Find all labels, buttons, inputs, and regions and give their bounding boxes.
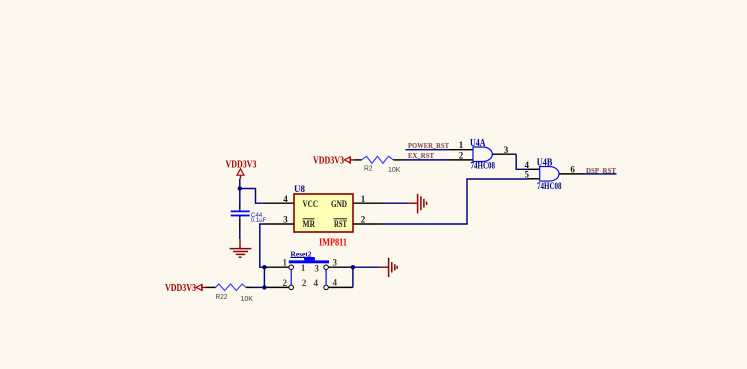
- resistor R22: [216, 284, 254, 303]
- ground right of button (sideways): [379, 258, 397, 277]
- pin 4 U4B: [525, 160, 540, 170]
- svg-text:3: 3: [333, 257, 338, 267]
- svg-text:MR: MR: [303, 220, 316, 230]
- node junction button pin2: [262, 285, 266, 289]
- power VDD3V3 bottom: [165, 283, 206, 294]
- svg-text:6: 6: [570, 164, 575, 174]
- svg-text:5: 5: [525, 169, 530, 179]
- svg-text:1: 1: [459, 140, 464, 150]
- wire junction to U8 pin 4: [240, 189, 266, 204]
- pin 2 U4A: [450, 150, 473, 160]
- svg-text:VDD3V3: VDD3V3: [313, 155, 344, 166]
- wire button to ground: [353, 266, 380, 268]
- pin 1 U4A: [450, 140, 473, 150]
- svg-text:1: 1: [283, 257, 288, 267]
- wire button left vertical: [263, 267, 265, 287]
- svg-text:3: 3: [504, 145, 509, 155]
- svg-text:2: 2: [283, 278, 288, 288]
- svg-text:74HC08: 74HC08: [471, 161, 496, 171]
- svg-text:U4B: U4B: [537, 157, 553, 168]
- svg-text:R2: R2: [364, 166, 373, 173]
- svg-text:4: 4: [283, 194, 288, 204]
- wire VDD to cap: [239, 179, 241, 205]
- svg-text:10K: 10K: [241, 296, 254, 303]
- pushbutton Reset2: [264, 250, 353, 289]
- pin 5 U4B: [525, 169, 540, 179]
- svg-text:74HC08: 74HC08: [537, 181, 562, 191]
- svg-text:4: 4: [313, 278, 318, 288]
- wire cap to ground: [239, 229, 241, 239]
- svg-text:4: 4: [333, 277, 338, 287]
- pin 3 U4A output: [492, 145, 516, 155]
- wire arrow to R22: [206, 286, 216, 288]
- wire button right loop: [352, 267, 354, 287]
- power VDD3V3 top: [226, 160, 257, 179]
- node junction button pin1: [262, 265, 266, 269]
- wire POWER_RST to gate pin1: [406, 149, 451, 151]
- pin 3 U8 MR: [265, 215, 294, 225]
- wire pin1 to ground: [383, 202, 409, 204]
- svg-text:IMP811: IMP811: [319, 238, 347, 249]
- svg-text:VDD3V3: VDD3V3: [165, 283, 196, 294]
- svg-text:2: 2: [361, 215, 366, 225]
- pin 4 U8: [265, 194, 294, 204]
- wire DSP_RST: [583, 173, 617, 175]
- wire R2 to gate pin2 EX_RST: [394, 159, 451, 161]
- svg-text:EX_RST: EX_RST: [408, 151, 434, 160]
- svg-text:10K: 10K: [388, 167, 401, 174]
- wire arrow to R2: [355, 159, 362, 161]
- svg-text:GND: GND: [331, 200, 347, 210]
- svg-text:0.1uF: 0.1uF: [251, 217, 267, 224]
- AND gate U4A: [470, 138, 495, 171]
- svg-text:3: 3: [314, 263, 319, 273]
- svg-text:DSP_RST: DSP_RST: [586, 166, 616, 175]
- svg-text:VCC: VCC: [303, 200, 319, 210]
- svg-text:1: 1: [301, 263, 306, 273]
- wire RST to U4B pin5: [383, 179, 529, 224]
- svg-text:2: 2: [302, 278, 307, 288]
- wire U4A out to U4B pin4: [516, 154, 528, 169]
- svg-text:3: 3: [283, 215, 288, 225]
- svg-text:4: 4: [525, 160, 530, 170]
- AND gate U4B: [537, 157, 562, 191]
- ground right of U8 (sideways): [408, 194, 427, 214]
- pin 6 U4B output: [559, 164, 583, 174]
- svg-text:U8: U8: [294, 185, 305, 195]
- node junction VDD/VCC: [238, 186, 242, 190]
- ground below C44: [230, 239, 252, 257]
- svg-text:RST: RST: [334, 220, 347, 230]
- svg-text:POWER_RST: POWER_RST: [408, 141, 449, 150]
- IC U8 IMP811 body: [294, 185, 353, 249]
- resistor R2: [362, 156, 401, 174]
- svg-text:U4A: U4A: [470, 138, 486, 149]
- pin 2 U8 RST: [353, 215, 383, 225]
- node junction button pin3: [351, 265, 355, 269]
- power VDD3V3 mid (R2): [313, 155, 355, 166]
- pin 1 U8 GND: [353, 194, 383, 204]
- wire MR down to reset button: [260, 224, 266, 267]
- wire R22 to button: [246, 286, 265, 288]
- svg-text:2: 2: [459, 150, 464, 160]
- svg-text:R22: R22: [216, 294, 228, 301]
- capacitor C44: [231, 209, 267, 230]
- svg-text:1: 1: [361, 194, 366, 204]
